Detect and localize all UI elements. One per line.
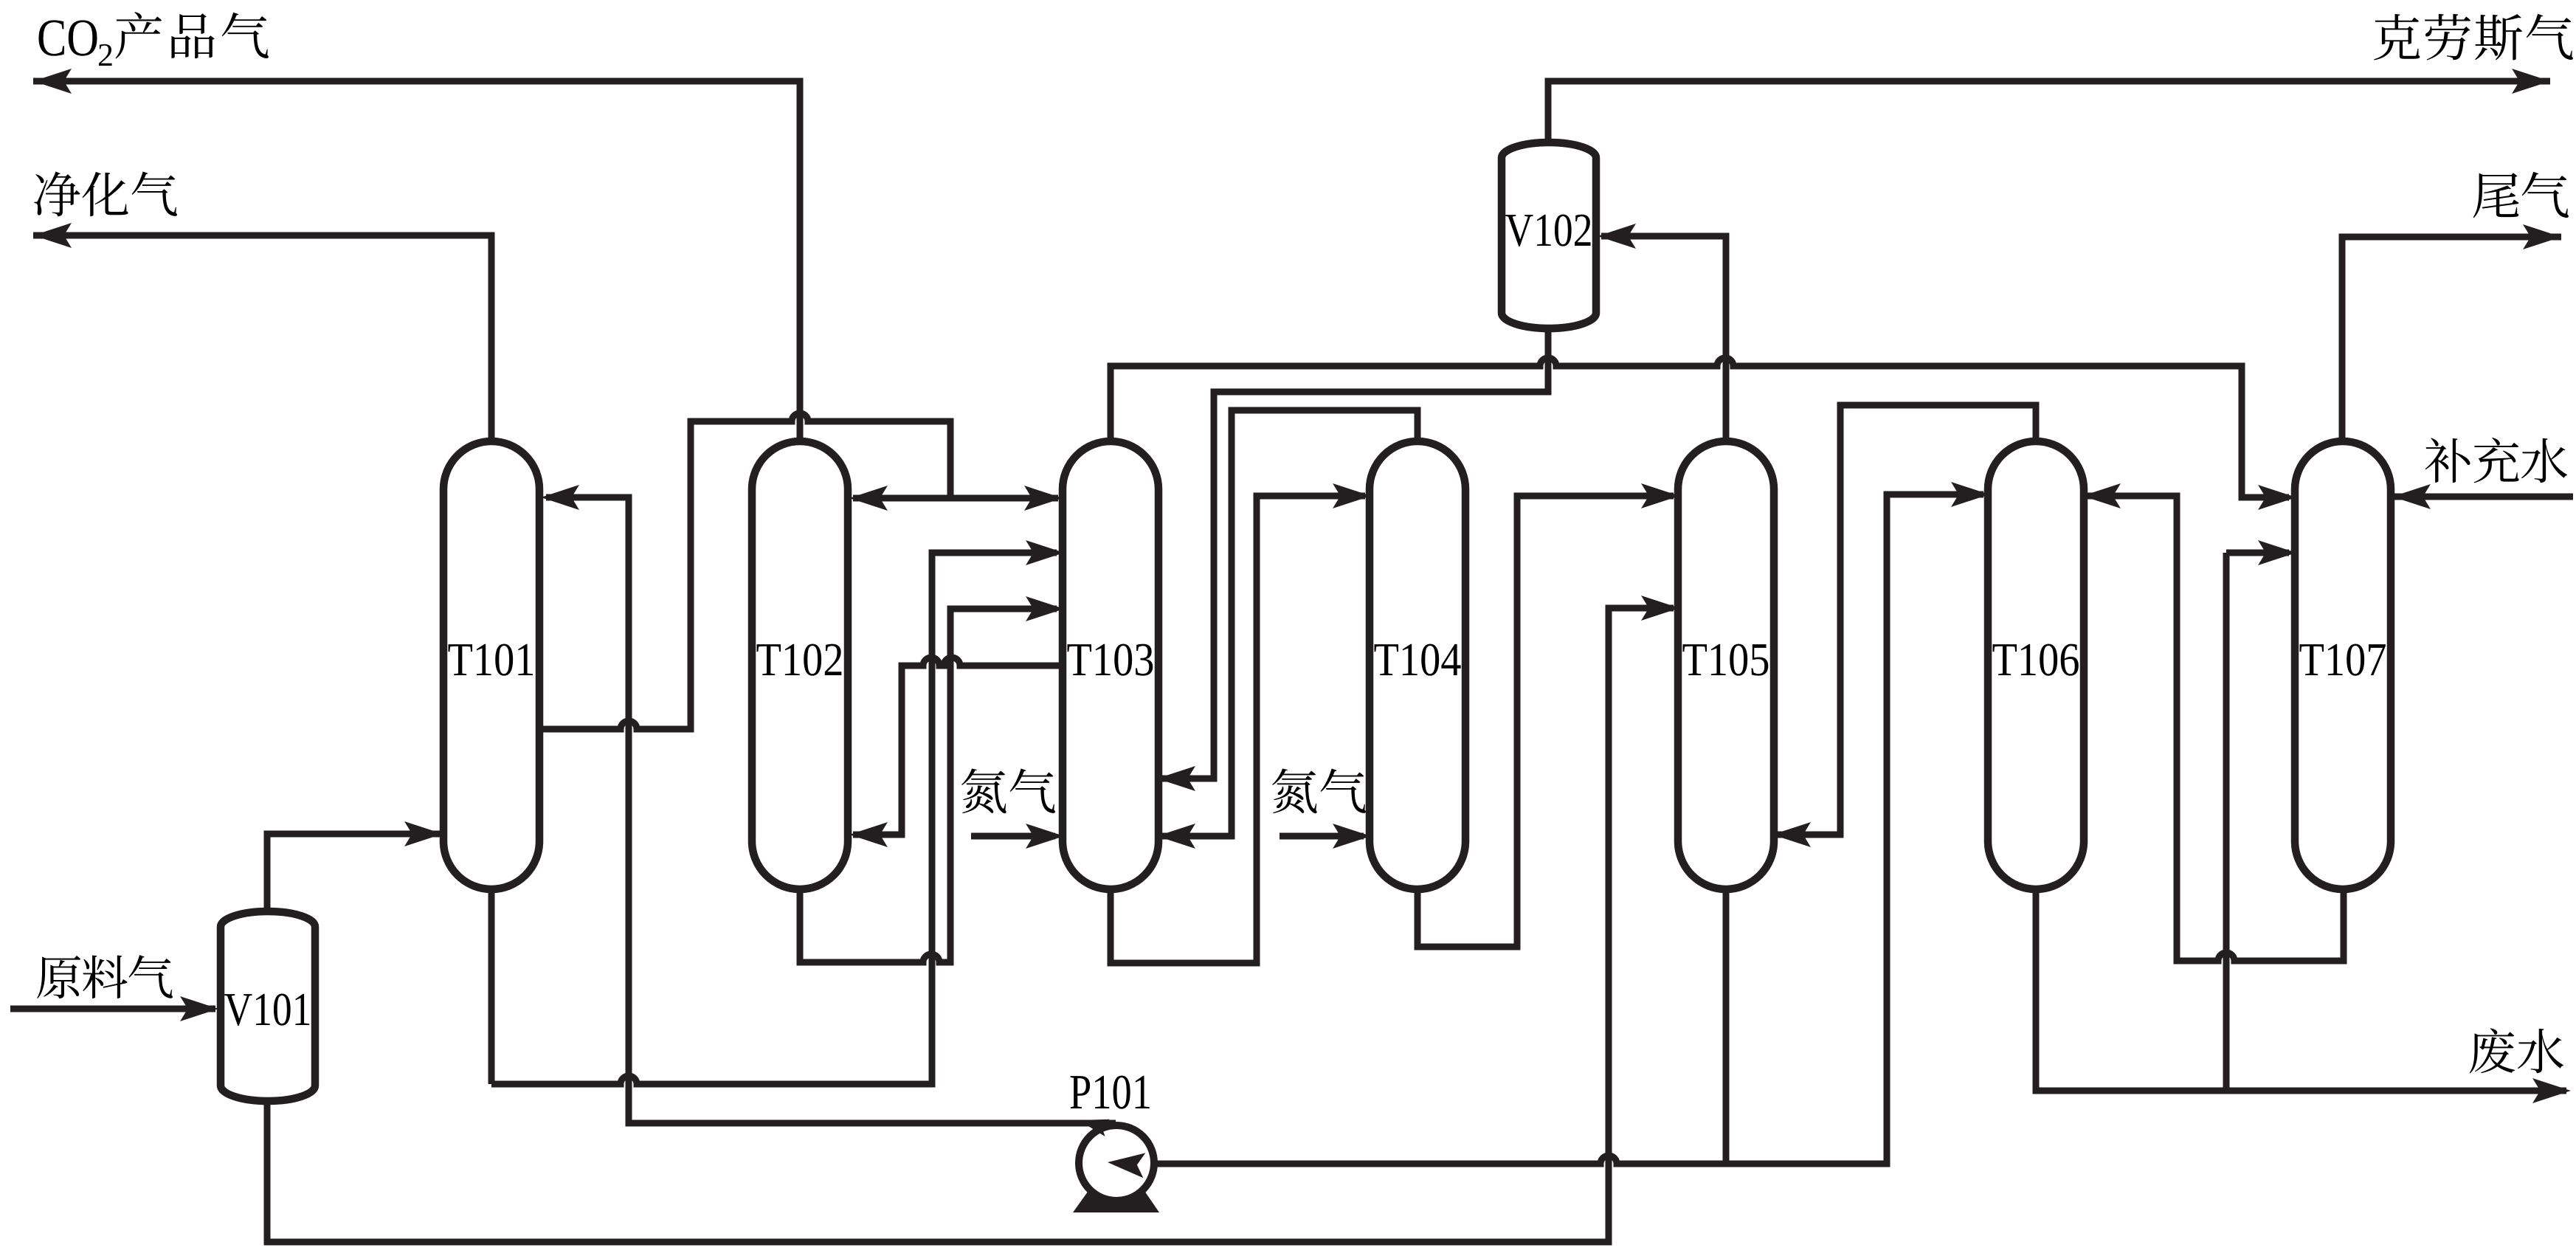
arrowhead into T105 left y824 xyxy=(1641,596,1679,621)
vessel V102 xyxy=(1502,142,1596,328)
wire T107 bottom header to T106 right inlet xyxy=(2087,493,2180,500)
arrowhead purified gas out xyxy=(33,223,72,248)
wire CO2 product gas line from T102 top xyxy=(33,78,800,85)
wire T103 left y902 to T102 right inlet y1131 xyxy=(902,658,1063,666)
column T104 xyxy=(1370,441,1465,889)
arrowhead pump suction inside P101 xyxy=(1107,1150,1146,1178)
wire tail gas line from T107 top xyxy=(2339,237,2346,443)
wire purified gas line from T101 top xyxy=(33,232,491,239)
arrowhead into T105 right y1131 xyxy=(1772,822,1811,847)
wire V101 top to T101 left inlet xyxy=(267,834,440,915)
arrowhead nitrogen into T104 xyxy=(1333,824,1371,849)
wire T106 bottom to wastewater out xyxy=(2036,889,2566,1091)
label purified gas xyxy=(35,171,80,216)
label Claus gas xyxy=(2374,14,2420,61)
label nitrogen left xyxy=(961,769,1006,814)
wire overhead header T103 top to T107 left y674 xyxy=(1108,366,1114,443)
wire wastewater branch to T107 left inlet y749 xyxy=(2223,553,2230,1091)
wire pump suction header with riser to T106 left inlet xyxy=(1138,1156,1887,1164)
wire Claus gas line from V102 top xyxy=(1545,81,1552,144)
vessel V101 xyxy=(221,911,315,1101)
arrowhead feed gas into V101 xyxy=(180,996,218,1021)
arrowhead into T104 left y672 xyxy=(1333,483,1371,508)
wire T104 bottom to T105 left inlet y672 xyxy=(1418,496,1674,947)
wire V102 bottom to T103 right inlet y1055 xyxy=(1545,327,1552,392)
arrowhead into T105 left y672 xyxy=(1641,483,1679,508)
wire double-headed feed line T102 right / T103 left xyxy=(853,495,1058,502)
arrowhead makeup water into T107 xyxy=(2392,484,2431,509)
arrowhead into T103 right y1055 xyxy=(1157,766,1195,791)
arrowhead into T101 right top xyxy=(541,485,579,510)
column T106 xyxy=(1988,441,2084,889)
wire T101 bottom to T103 left inlet y749 xyxy=(488,889,495,1084)
wire T103 bottom to T104 left inlet y672 xyxy=(1111,496,1365,963)
arrowhead into T103 left y825 xyxy=(1026,596,1064,621)
label feed gas xyxy=(37,956,80,998)
column T102 xyxy=(752,441,848,889)
arrowhead into T102 right y1131 xyxy=(849,822,888,847)
arrowhead Claus gas out xyxy=(2512,69,2550,94)
wire pump discharge riser x852 to T101 right top xyxy=(546,494,629,501)
arrowhead into T103 left top xyxy=(1024,486,1063,511)
column T101 xyxy=(443,441,539,889)
label wastewater xyxy=(2470,1028,2515,1073)
wire T101 right outlet loop to T102/T103 feed xyxy=(539,721,691,729)
wire T105 top to V102 right inlet xyxy=(1723,236,1730,443)
wire nitrogen line into T103 xyxy=(971,833,1055,840)
arrowhead into T103 left y749 xyxy=(1026,540,1064,565)
wire T105 bottom stub to suction header xyxy=(1723,889,1730,1164)
wire T106 top to T105 right inlet y1131 xyxy=(2033,405,2040,443)
wire makeup water line into T107 right xyxy=(2394,494,2573,500)
arrowhead into T101 left xyxy=(404,821,443,846)
arrowhead at pump discharge xyxy=(1077,1111,1110,1136)
arrowhead into T106 left y670 xyxy=(1951,482,1989,507)
wire T102 bottom to T103 left inlet y825 xyxy=(797,889,804,962)
arrowhead into V102 right xyxy=(1598,224,1636,249)
label CO2 product gas xyxy=(38,20,64,55)
label tail gas xyxy=(2473,173,2519,218)
arrowhead into T102 right top xyxy=(849,486,888,511)
wire nitrogen line into T104 xyxy=(1280,833,1364,840)
column T103 xyxy=(1063,441,1158,889)
arrowhead nitrogen into T103 xyxy=(1026,824,1064,849)
pump P101 xyxy=(1073,1187,1159,1212)
arrowhead into T103 right y1133 xyxy=(1157,824,1195,849)
arrowhead tail gas out xyxy=(2523,224,2561,249)
column T107 xyxy=(2295,441,2391,889)
arrowhead into T106 right y672 xyxy=(2082,483,2121,508)
arrowhead wastewater out xyxy=(2532,1078,2571,1103)
label makeup water xyxy=(2425,438,2470,483)
arrowhead into T107 left y674 xyxy=(2258,485,2296,510)
label nitrogen right xyxy=(1272,769,1317,814)
column T105 xyxy=(1678,441,1774,889)
wire feed gas line into V101 xyxy=(10,1006,215,1012)
arrowhead CO2 product gas out xyxy=(33,69,72,94)
arrowhead into T107 left y749 xyxy=(2258,540,2296,565)
wire V101 bottom to T105 left inlet y824 xyxy=(267,608,1674,1242)
wire T104 top to T103 right inlet y1133 xyxy=(1415,410,1421,443)
